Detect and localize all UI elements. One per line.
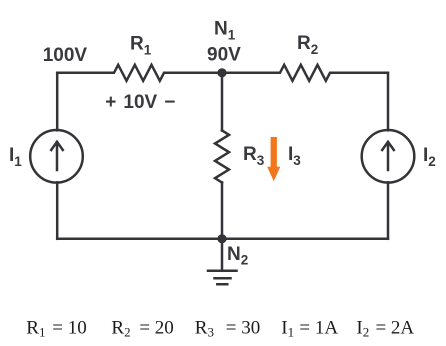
svg-text:R1 = 10: R1 = 10: [26, 318, 86, 340]
wire top-left horizontal with resistor R1 and to node N1 and resistor R2: [57, 65, 388, 81]
svg-text:R1: R1: [130, 34, 152, 58]
svg-text:R2: R2: [297, 33, 318, 57]
svg-text:I3: I3: [288, 144, 301, 168]
current source I1: [30, 130, 83, 183]
wire right vertical upper: [387, 73, 390, 131]
wire middle vertical upper: [221, 73, 224, 131]
svg-text:I2: I2: [423, 145, 436, 169]
wire right vertical lower: [387, 182, 390, 239]
wire left vertical lower: [56, 182, 59, 239]
svg-text:I2 = 2A: I2 = 2A: [356, 318, 414, 340]
wire bottom horizontal: [57, 238, 388, 241]
svg-text:R3 = 30: R3 = 30: [195, 318, 260, 340]
wire left vertical upper: [56, 73, 59, 131]
current arrow I3: [267, 137, 280, 181]
arrow of I1: [51, 142, 63, 170]
svg-text:N2: N2: [227, 244, 248, 268]
svg-text:100V: 100V: [43, 45, 88, 66]
ground: [208, 271, 237, 284]
node N1: [217, 68, 226, 77]
svg-text:I1: I1: [9, 145, 22, 169]
arrow of I2: [382, 142, 394, 170]
wire middle vertical lower: [221, 183, 224, 239]
current source I2: [362, 130, 415, 183]
svg-text:N1: N1: [214, 18, 236, 42]
svg-text:90V: 90V: [207, 45, 241, 66]
node N2: [217, 234, 226, 243]
svg-text:I1 = 1A: I1 = 1A: [281, 318, 338, 340]
wire ground stub: [221, 239, 224, 271]
svg-text:+ 10V −: + 10V −: [105, 92, 175, 113]
svg-text:R2 = 20: R2 = 20: [111, 318, 173, 340]
resistor R3: [215, 131, 229, 183]
svg-text:R3: R3: [243, 144, 265, 168]
